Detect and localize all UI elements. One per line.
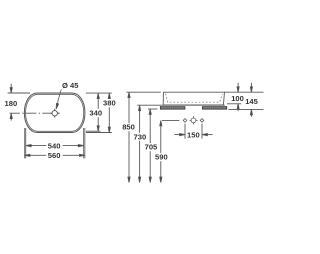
dimension 540 (inner width) [26, 128, 84, 158]
dimension 730 [139, 105, 141, 110]
basin side profile [163, 92, 224, 105]
inner bowl (hidden) dashed [166, 94, 223, 103]
145 reference line [228, 108, 263, 110]
counter top line [137, 104, 225, 106]
svg-text:560: 560 [48, 151, 61, 160]
fixing holes level line (590 ref) [162, 119, 179, 121]
centre line through drain [10, 112, 60, 114]
svg-text:540: 540 [48, 141, 61, 150]
svg-text:Ø 45: Ø 45 [62, 81, 79, 90]
tap hole target symbol [189, 116, 197, 124]
100 reference line [227, 103, 241, 105]
sealing strip left [160, 107, 185, 110]
svg-text:145: 145 [245, 97, 258, 106]
dimension 560 (outer width) [25, 128, 85, 158]
svg-text:380: 380 [103, 99, 116, 108]
svg-text:340: 340 [89, 109, 102, 118]
380 [108, 93, 110, 98]
340 [97, 93, 99, 98]
dimension 850 [128, 92, 130, 97]
leader line for Ø45 [57, 89, 62, 106]
svg-text:730: 730 [134, 132, 147, 141]
sealing strip right [202, 107, 226, 110]
svg-text:100: 100 [231, 94, 244, 103]
basin inner rim (oval 540x340) [26, 94, 84, 131]
svg-text:590: 590 [155, 153, 168, 162]
svg-text:850: 850 [122, 123, 135, 132]
dimension 705 [149, 109, 151, 114]
drain Ø45 symbol [50, 109, 59, 118]
dimension 590 [160, 120, 162, 125]
fixing hole diamond right [200, 119, 204, 123]
dimension 150 [185, 124, 202, 139]
rim level line (right segment) [225, 91, 264, 93]
dimension 180 (left) [8, 84, 30, 93]
counter underside stub (705 ref) [148, 108, 157, 110]
svg-text:705: 705 [145, 143, 158, 152]
svg-text:150: 150 [187, 130, 200, 139]
basin outer rim (oval 560x380) [24, 93, 85, 133]
dimension 145 [250, 83, 252, 87]
dimensions 380 / 340 (right of oval) [86, 92, 112, 94]
rim level line (left segment) [127, 91, 161, 93]
svg-text:180: 180 [5, 99, 18, 108]
dimension 100 [237, 83, 239, 87]
fixing hole diamond left [183, 119, 187, 123]
